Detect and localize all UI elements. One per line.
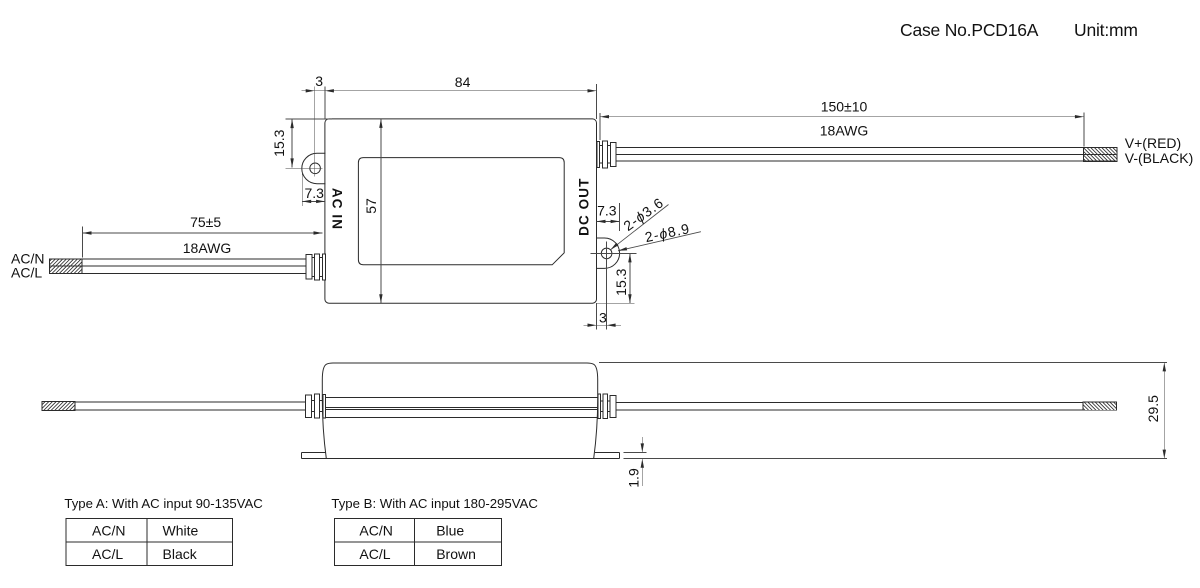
svg-text:57: 57 [363,198,379,214]
left mounting foot [302,451,326,453]
dim 150±10 [599,113,601,140]
AC strain relief (top view) [312,256,315,258]
table B [335,519,502,566]
left hole horizontal centerline [285,167,322,169]
dim 15.3 (right) [597,302,635,304]
side view parting line L1 [322,397,597,399]
svg-text:3: 3 [315,73,323,89]
left hole vertical centerline / extension for dim 3 [314,86,316,176]
svg-text:AC/L: AC/L [11,265,42,281]
svg-text:AC/L: AC/L [92,546,123,562]
table A [66,519,232,566]
side view bottom edge [302,458,620,460]
left mounting tab (top view) [302,153,326,183]
svg-text:V-(BLACK): V-(BLACK) [1125,150,1193,166]
svg-text:7.3: 7.3 [304,185,324,201]
svg-text:18AWG: 18AWG [183,240,232,256]
DC strain relief (top view) [599,144,602,146]
side view AC wire stripped end (hatched) [42,402,75,411]
dim 75±5 [82,227,84,258]
svg-text:7.3: 7.3 [597,203,617,219]
svg-text:V+(RED): V+(RED) [1125,135,1181,151]
svg-text:18AWG: 18AWG [820,123,869,139]
svg-text:3: 3 [599,310,607,326]
svg-text:AC/N: AC/N [359,523,392,539]
dim 7.3 (right) [619,203,621,231]
right mounting hole [601,248,612,259]
svg-text:AC/L: AC/L [359,546,390,562]
svg-text:White: White [163,523,199,539]
side view right strain relief [600,400,603,402]
dim 1.9 [623,451,646,453]
right hole vertical centerline / extension for dim 3 [606,241,608,329]
svg-text:Blue: Blue [436,523,464,539]
AC wire stripped end (hatched) [49,259,82,274]
AC input wires (top view) [50,258,306,260]
dim 29.5 [599,361,1167,363]
right mounting tab (top view) [597,238,620,268]
side view AC wire [75,401,306,403]
svg-text:1.9: 1.9 [626,468,642,488]
svg-text:AC IN: AC IN [330,188,345,230]
svg-text:Unit:mm: Unit:mm [1074,20,1138,40]
right hole horizontal centerline [591,252,637,254]
svg-text:Type B: With AC input 180-295V: Type B: With AC input 180-295VAC [331,496,538,511]
svg-text:DC OUT: DC OUT [576,178,591,236]
dim 15.3 (left) [285,118,332,120]
svg-text:150±10: 150±10 [821,99,868,115]
side view parting line L4 [323,417,598,419]
leader 2-φ8.9 [618,232,701,251]
svg-text:AC/N: AC/N [92,523,125,539]
svg-text:Type A: With AC input 90-135VA: Type A: With AC input 90-135VAC [64,496,263,511]
label recess (top view inner rounded rect) [358,158,564,265]
right mounting foot [595,451,620,453]
svg-text:84: 84 [455,74,471,90]
dim 3 (top) and dim 84 [324,86,326,119]
dim 57 [380,119,382,303]
svg-text:Case No.PCD16A: Case No.PCD16A [900,20,1039,40]
case body (top view) [325,119,597,303]
side view seam lines [322,407,597,409]
side view left strain relief [312,400,315,402]
svg-text:75±5: 75±5 [190,214,221,230]
DC wire stripped end (hatched) [1084,148,1117,162]
svg-text:Brown: Brown [436,546,476,562]
svg-text:15.3: 15.3 [271,129,287,156]
side view body [322,363,597,459]
svg-text:29.5: 29.5 [1145,395,1161,422]
svg-text:2-ϕ8.9: 2-ϕ8.9 [643,220,691,245]
svg-text:Black: Black [163,546,198,562]
leader 2-φ3.6 [611,205,669,250]
left mounting hole [310,163,321,174]
DC output wires (top view) [616,147,1116,149]
dim 7.3 (left) [301,172,303,206]
side view DC wire stripped end (hatched) [1083,402,1117,410]
dim 3 (bottom right) [596,303,598,329]
svg-text:15.3: 15.3 [613,268,629,295]
side view DC wire [616,401,1083,403]
